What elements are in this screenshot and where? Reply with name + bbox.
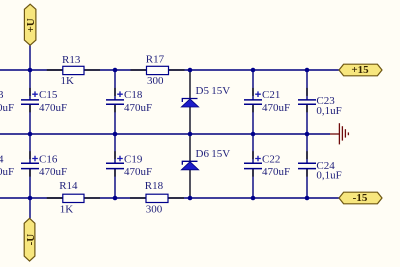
svg-text:470uF: 470uF xyxy=(124,166,152,178)
svg-text:C19: C19 xyxy=(124,154,143,166)
svg-text:470uF: 470uF xyxy=(262,102,290,114)
svg-text:C18: C18 xyxy=(124,89,143,101)
junction middle rail x=190 xyxy=(188,132,193,137)
svg-text:R13: R13 xyxy=(62,54,81,66)
wire column x=115 (C18/C19 leads) xyxy=(114,70,116,198)
svg-text:470uF: 470uF xyxy=(39,102,67,114)
svg-text:0,1uF: 0,1uF xyxy=(316,170,341,182)
wire bottom rail xyxy=(0,197,339,199)
capacitor column pins x=253 xyxy=(252,88,254,96)
svg-text:15V: 15V xyxy=(211,148,230,160)
svg-text:-15: -15 xyxy=(353,192,368,204)
junction top rail x=30 xyxy=(28,68,33,73)
svg-text:R18: R18 xyxy=(145,180,164,192)
capacitor C14 label fragment (off-sheet left, bottom) xyxy=(0,154,14,179)
port +15 xyxy=(339,64,382,76)
wire top rail xyxy=(0,69,339,71)
capacitor C15 xyxy=(21,89,67,114)
svg-text:C15: C15 xyxy=(39,89,58,101)
capacitor C18 xyxy=(106,89,152,114)
capacitor column pins x=115 xyxy=(114,88,116,96)
junction bottom rail x=115 xyxy=(113,196,118,201)
junction top rail x=307 xyxy=(305,68,310,73)
junction top rail x=253 xyxy=(251,68,256,73)
svg-text:470uF: 470uF xyxy=(124,102,152,114)
svg-text:470uF: 470uF xyxy=(39,166,67,178)
svg-text:0,1uF: 0,1uF xyxy=(316,105,341,117)
svg-text:R17: R17 xyxy=(146,54,165,66)
capacitor C22 xyxy=(244,154,290,179)
junction top rail x=115 xyxy=(113,68,118,73)
capacitor C19 xyxy=(106,154,152,179)
svg-text:1000uF: 1000uF xyxy=(0,102,14,114)
resistor R17 xyxy=(146,54,169,87)
capacitor C21 xyxy=(244,89,290,114)
junction middle rail x=115 xyxy=(113,132,118,137)
svg-text:300: 300 xyxy=(146,204,163,216)
capacitor C23 xyxy=(298,95,342,117)
svg-text:+15: +15 xyxy=(351,64,369,76)
svg-text:300: 300 xyxy=(147,75,164,87)
junction middle rail x=307 xyxy=(305,132,310,137)
svg-text:470uF: 470uF xyxy=(262,166,290,178)
svg-text:C16: C16 xyxy=(39,154,58,166)
wire -U stub xyxy=(29,198,31,219)
resistor R14 pins xyxy=(47,197,63,199)
junction top rail x=190 xyxy=(188,68,193,73)
junction middle rail x=253 xyxy=(251,132,256,137)
capacitor column pins x=307 xyxy=(306,88,308,96)
zener diode D5 xyxy=(181,85,230,107)
resistor R13 pins xyxy=(47,69,63,71)
junction middle rail x=30 xyxy=(28,132,33,137)
capacitor C24 xyxy=(298,160,342,182)
power port +U xyxy=(24,4,37,45)
junction bottom rail x=253 xyxy=(251,196,256,201)
svg-text:D5: D5 xyxy=(196,85,210,97)
svg-text:C21: C21 xyxy=(262,89,280,101)
resistor R17 pins xyxy=(131,69,147,71)
wire column x=190 (D5/D6 pins) xyxy=(189,70,191,198)
port -15 xyxy=(339,192,382,204)
wire column x=30 (C15/C16 leads) xyxy=(29,45,31,198)
resistor R18 pins xyxy=(130,197,146,199)
svg-text:D6: D6 xyxy=(196,148,210,160)
ground xyxy=(330,123,348,144)
zener diode D6 xyxy=(181,148,230,170)
svg-text:+U: +U xyxy=(25,18,37,32)
svg-text:C13: C13 xyxy=(0,89,4,101)
svg-text:C22: C22 xyxy=(262,154,280,166)
power port -U xyxy=(24,218,37,261)
svg-text:C14: C14 xyxy=(0,154,4,166)
resistor R13 xyxy=(61,54,85,87)
resistor R14 xyxy=(59,180,84,216)
svg-text:1000uF: 1000uF xyxy=(0,166,14,178)
svg-text:-U: -U xyxy=(25,234,37,246)
capacitor C16 xyxy=(21,154,67,179)
capacitor C13 label fragment (off-sheet left, top) xyxy=(0,89,14,114)
capacitor column pins x=30 xyxy=(29,88,31,96)
wire middle rail xyxy=(0,133,330,135)
svg-text:1K: 1K xyxy=(61,75,75,87)
wire column x=253 (C21/C22 leads) xyxy=(252,70,254,198)
resistor R18 xyxy=(145,180,168,216)
wire column x=307 (C23/C24 leads) xyxy=(306,70,308,198)
junction bottom rail x=30 xyxy=(28,196,33,201)
junction bottom rail x=190 xyxy=(188,196,193,201)
junction bottom rail x=307 xyxy=(305,196,310,201)
svg-text:15V: 15V xyxy=(211,85,230,97)
svg-text:R14: R14 xyxy=(59,180,78,192)
pin black segments (component pins) xyxy=(30,70,307,198)
svg-text:1K: 1K xyxy=(60,204,74,216)
